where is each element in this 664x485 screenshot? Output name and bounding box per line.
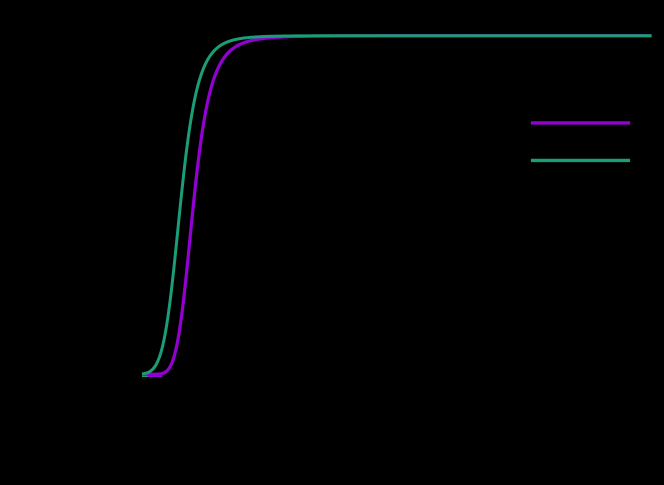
legend teal line [531, 159, 630, 162]
teal baseline tail segment [142, 375, 148, 377]
purple baseline tail segment [142, 375, 162, 377]
legend purple line [531, 121, 630, 124]
curve teal (dose-response curve, drawn on top) [142, 36, 652, 374]
curve purple (dose-response curve, drawn first/underneath) [142, 36, 652, 375]
